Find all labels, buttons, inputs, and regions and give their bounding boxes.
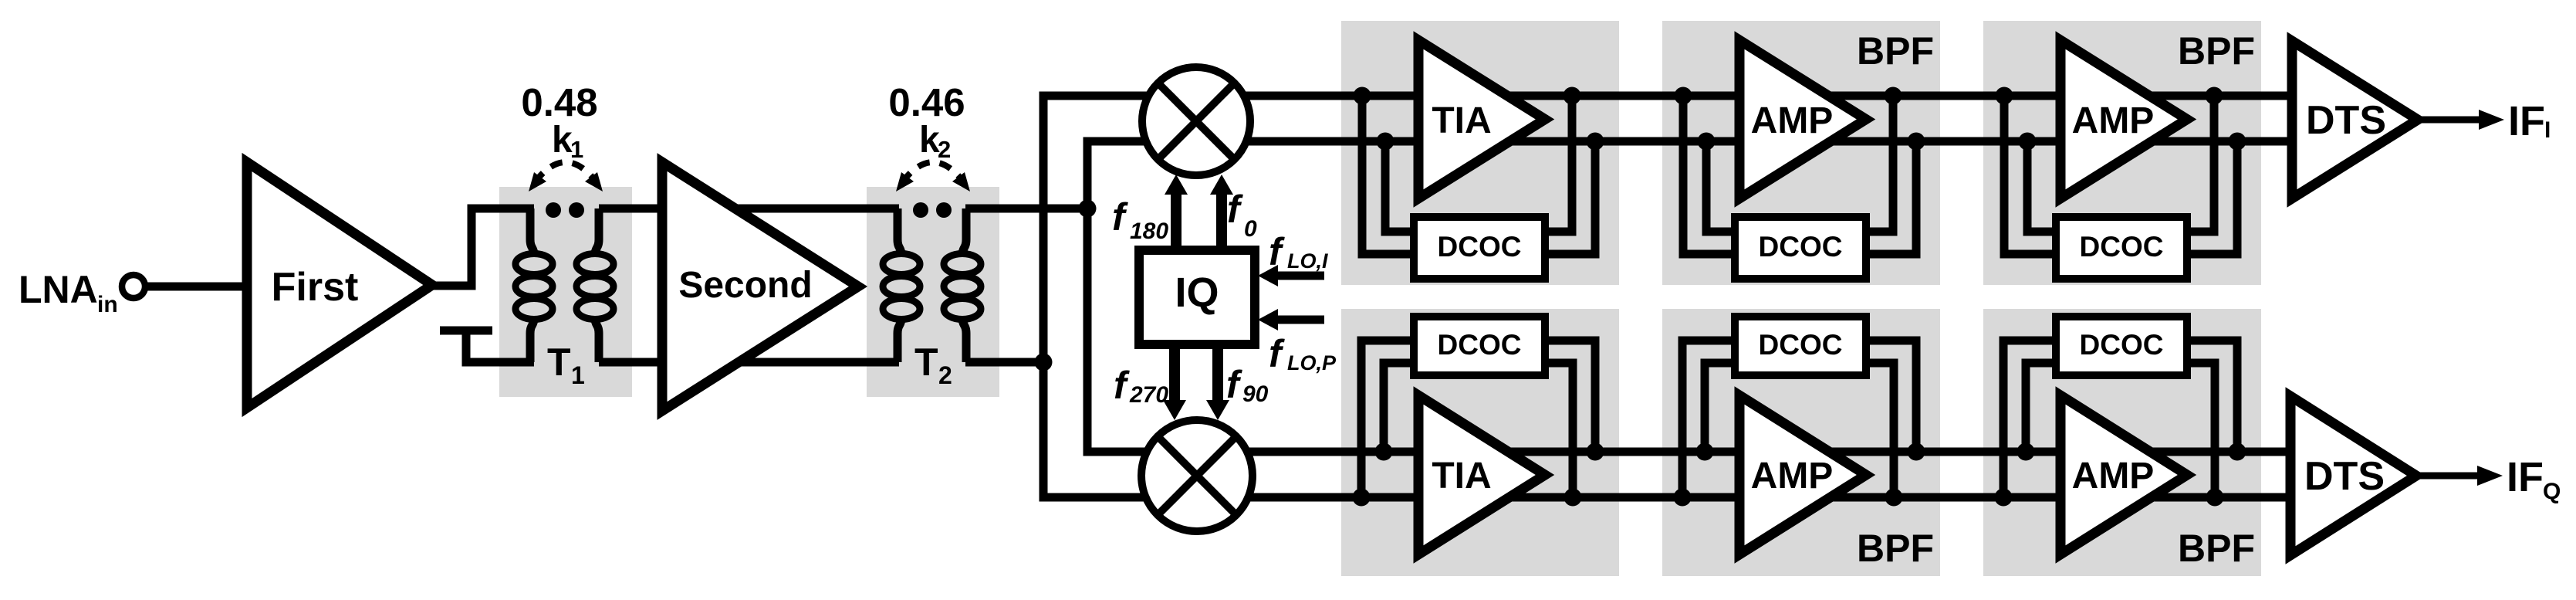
DCOC box AMP1 (I path) [1735,217,1866,279]
T2 primary winding [898,208,901,255]
output arrow IF Q [2416,473,2480,480]
svg-text:k: k [552,120,573,161]
svg-text:0.48: 0.48 [521,80,597,124]
svg-text:DCOC: DCOC [2080,329,2164,361]
T1 coupling dashed arc with arrowheads [535,162,597,182]
node dots at TIA1 output (I path) [1564,87,1581,105]
node dots at AMP2 output (I path) [2206,87,2223,105]
DCOC box AMP3 (Q path) [1735,317,1866,375]
node dots at AMP1 output (I path) [1885,87,1902,105]
DCOC box AMP4 (Q path) [2056,317,2187,375]
svg-text:1: 1 [570,136,583,163]
svg-text:AMP: AMP [1751,456,1834,497]
svg-text:270: 270 [1129,382,1168,408]
LO arrow f0 into I mixer [1216,193,1227,252]
svg-text:IF: IF [2508,98,2545,144]
svg-text:0.46: 0.46 [888,80,965,124]
LO input arrow fLO,P [1275,316,1324,324]
svg-text:BPF: BPF [1857,527,1934,570]
svg-text:LO,I: LO,I [1287,249,1328,273]
svg-text:k: k [919,120,940,161]
amplifier AMP3 triangle (Q path) [1739,395,1866,554]
DCOC box TIA2 (Q path) [1414,317,1545,375]
T2 polarity dots [913,202,928,218]
node dots at AMP3 output (Q path) [1885,489,1903,507]
gray panel stage AMP2 (I path) [1983,21,2261,285]
wire LNAin to First amp [145,283,250,291]
node B junction dot [1035,354,1053,371]
svg-text:T: T [914,341,938,384]
svg-text:AMP: AMP [1751,100,1834,141]
amplifier First [247,162,432,408]
mixer I (RF x LO) circle with X [1142,67,1250,175]
gray panel stage TIA1 (I path) [1341,21,1619,285]
svg-text:DCOC: DCOC [1759,329,1843,361]
T1 polarity dots [546,202,561,218]
svg-text:DCOC: DCOC [2080,231,2164,263]
svg-text:1: 1 [571,361,585,389]
node dots at AMP2 input (I path) [1996,87,2013,105]
node dots at AMP4 input (Q path) [1995,489,2013,507]
wire T1 secondary bottom to T2 primary bottom (behind Second) [599,358,899,367]
svg-text:First: First [272,265,359,310]
svg-text:DCOC: DCOC [1759,231,1843,263]
svg-text:180: 180 [1130,219,1168,244]
gray panel stage AMP3 (Q path) [1662,309,1940,576]
svg-text:TIA: TIA [1432,456,1491,497]
wire mixer Q output bottom to DTS (Q path) [1204,493,2292,502]
T1 primary winding [530,208,534,255]
wire mixer I output bottom to DTS (I path) [1204,137,2294,146]
LO arrow f90 into Q mixer [1212,344,1223,402]
svg-text:DTS: DTS [2306,98,2386,143]
transformer T2 gray panel [867,187,999,397]
LO arrow f270 into Q mixer [1169,344,1180,402]
svg-text:Second: Second [678,265,812,306]
node dots at AMP1 input (I path) [1675,87,1692,105]
DCOC feedback wires AMP1 (I path) [1683,96,1735,254]
svg-text:AMP: AMP [2072,456,2155,497]
amplifier DTS (I path) [2292,41,2418,198]
svg-text:LNA: LNA [19,268,98,311]
wire mixer I output top to DTS (I path) [1204,92,2294,100]
wire vertical bus v2 (node A to mixer inputs) [1087,141,1150,452]
node dots at TIA1 input (I path) [1354,87,1371,105]
node A junction dot [1079,200,1097,218]
gray panel stage TIA2 (Q path) [1341,309,1619,576]
input terminal circle (node LNAin) [122,275,145,298]
DCOC feedback wires AMP3 (Q path) [1682,341,1735,497]
svg-text:DTS: DTS [2304,454,2385,499]
svg-text:in: in [97,292,118,317]
mixer Q (RF x LO) circle with X [1141,420,1253,531]
gray panel stage AMP1 (I path) [1662,21,1940,285]
wire T2 secondary bottom to node B [965,358,1047,367]
output arrow IF I [2418,117,2482,124]
svg-text:DCOC: DCOC [1438,329,1522,361]
DCOC box AMP2 (I path) [2056,217,2187,279]
amplifier AMP2 triangle (I path) [2060,40,2187,198]
wire T1 secondary top to T2 primary top (behind Second) [599,205,899,213]
amplifier DTS (Q path) [2290,396,2416,555]
svg-text:DCOC: DCOC [1438,231,1522,263]
DCOC feedback wires TIA2 (Q path) [1361,341,1414,497]
ground stub (T1 primary bottom AC ground) [440,327,492,335]
DCOC feedback wires AMP2 (I path) [2004,96,2056,254]
svg-text:BPF: BPF [2178,29,2255,73]
node dots at TIA2 input (Q path) [1353,489,1371,507]
T1 secondary winding [595,208,599,255]
IQ generator box U1 [1139,250,1255,344]
wire T2 secondary top to node A [965,205,1091,213]
svg-text:T: T [547,341,571,384]
gray panel stage AMP4 (Q path) [1983,309,2261,576]
svg-text:2: 2 [938,136,951,163]
node dots at AMP3 input (Q path) [1674,489,1692,507]
LO arrow f180 into I mixer [1171,193,1182,252]
wire vertical bus v1 (node B to mixer inputs) [1043,96,1150,497]
svg-text:BPF: BPF [1857,29,1934,73]
amplifier AMP4 triangle (Q path) [2060,395,2187,554]
T2 secondary winding [962,208,966,255]
svg-text:Q: Q [2543,479,2561,504]
transformer T1 gray panel [499,187,632,397]
svg-text:TIA: TIA [1432,100,1491,141]
amplifier AMP1 triangle (I path) [1739,40,1866,198]
svg-text:2: 2 [938,361,952,389]
svg-text:IF: IF [2507,454,2544,500]
svg-text:LO,P: LO,P [1287,351,1337,375]
wire First amp output to T1 primary top [426,208,534,286]
svg-text:I: I [2544,117,2551,143]
amplifier TIA2 triangle (Q path) [1418,395,1545,554]
DCOC box TIA1 (I path) [1414,217,1545,279]
svg-text:90: 90 [1242,381,1269,407]
svg-text:AMP: AMP [2072,100,2155,141]
DCOC feedback wires AMP4 (Q path) [2003,341,2056,497]
T2 coupling dashed arc with arrowheads [902,162,964,182]
DCOC feedback wires TIA1 (I path) [1362,96,1414,254]
node dots at AMP4 output (Q path) [2206,489,2224,507]
wire mixer Q output top to DTS (Q path) [1204,448,2292,456]
amplifier TIA1 triangle (I path) [1418,40,1545,198]
amplifier Second [662,162,858,411]
LO input arrow fLO,I [1275,272,1324,280]
node dots at TIA2 output (Q path) [1564,489,1582,507]
svg-text:BPF: BPF [2178,527,2255,570]
svg-text:0: 0 [1244,216,1257,242]
svg-text:IQ: IQ [1175,269,1219,316]
